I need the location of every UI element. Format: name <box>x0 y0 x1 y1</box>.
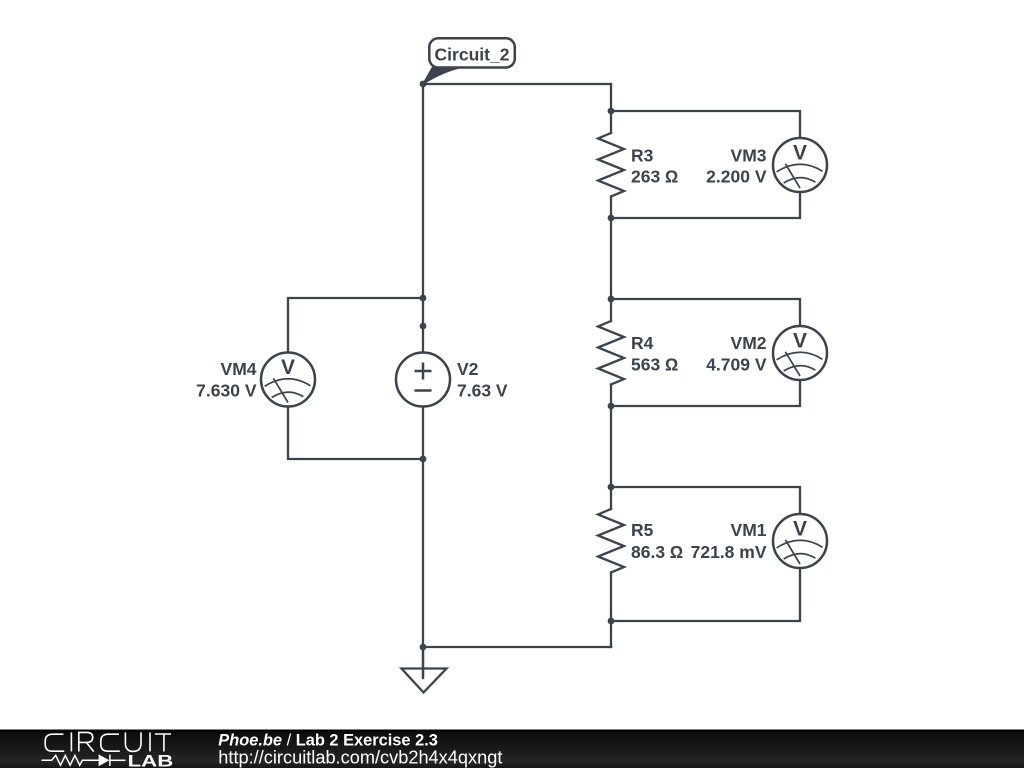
wire VM2 bottom rail <box>611 381 800 407</box>
svg-text:VM3: VM3 <box>731 145 767 165</box>
svg-text:Circuit_2: Circuit_2 <box>435 44 510 64</box>
letter R <box>79 732 94 751</box>
wire chain vertical segment 4 <box>610 573 612 648</box>
ground <box>402 647 447 693</box>
voltmeter VM2 <box>773 326 827 380</box>
label R5 <box>631 520 683 562</box>
svg-text:563 Ω: 563 Ω <box>631 354 679 374</box>
svg-text:V2: V2 <box>457 359 479 379</box>
letter U <box>125 732 141 751</box>
svg-text:721.8 mV: 721.8 mV <box>691 542 767 562</box>
svg-text:V: V <box>793 329 807 352</box>
junction VM4 top <box>420 295 427 302</box>
label VM4 <box>196 359 257 401</box>
wire top horizontal from node to chain <box>423 83 611 85</box>
wire main left vertical upper <box>422 84 424 353</box>
label V2 <box>457 359 508 401</box>
wire VM1 bottom rail <box>611 569 800 622</box>
svg-text:2.200 V: 2.200 V <box>706 166 767 186</box>
wire chain vertical segment 1 <box>610 84 612 133</box>
svg-text:VM4: VM4 <box>221 359 257 379</box>
junction chain-VM3 top <box>608 108 615 115</box>
label VM2 <box>706 333 767 375</box>
letter T <box>155 734 171 752</box>
node label callout Circuit_2 <box>423 38 515 84</box>
wire VM3 bottom rail <box>611 193 800 219</box>
wire VM3 top rail <box>611 111 800 138</box>
wire chain vertical segment 2 <box>610 197 612 322</box>
footer bar <box>0 730 1024 768</box>
svg-text:http://circuitlab.com/cvb2h4x4: http://circuitlab.com/cvb2h4x4qxngt <box>218 748 502 768</box>
letter C <box>45 734 64 751</box>
letter C <box>101 734 120 751</box>
wire chain vertical segment 3 <box>610 385 612 510</box>
svg-text:V: V <box>281 356 295 379</box>
label R3 <box>631 145 679 186</box>
resistor R5 body <box>598 509 624 573</box>
junction chain-VM1 top <box>608 484 615 491</box>
label VM1 <box>691 520 767 562</box>
junction bottom ground <box>420 644 427 651</box>
wire bottom horizontal <box>423 646 611 648</box>
label VM3 <box>706 145 767 186</box>
svg-text:V: V <box>793 517 807 540</box>
wire VM4 bottom rail <box>288 407 423 460</box>
resistor R3 body <box>598 133 624 197</box>
voltage source V2 <box>396 353 450 407</box>
wire VM4 top rail <box>288 298 423 353</box>
voltmeter VM4 <box>261 353 315 407</box>
junction chain-VM3 bottom <box>608 215 615 222</box>
voltmeter VM3 <box>773 138 827 192</box>
letter I <box>149 732 151 751</box>
wire main left vertical lower <box>422 407 424 679</box>
junction chain-VM1 bottom <box>608 618 615 625</box>
svg-text:86.3 Ω: 86.3 Ω <box>631 542 683 562</box>
wire VM2 top rail <box>611 299 800 326</box>
svg-text:VM2: VM2 <box>731 333 767 353</box>
label R4 <box>631 333 679 375</box>
junction chain-VM2 top <box>608 296 615 303</box>
svg-text:R4: R4 <box>631 333 654 353</box>
svg-text:VM1: VM1 <box>731 520 767 540</box>
svg-text:R5: R5 <box>631 520 654 540</box>
svg-text:7.63 V: 7.63 V <box>457 381 508 401</box>
wire VM1 top rail <box>611 487 800 514</box>
footer title text <box>218 731 502 767</box>
node Circuit_2 top-left <box>420 81 427 88</box>
svg-text:7.630 V: 7.630 V <box>196 381 257 401</box>
junction chain-VM2 bottom <box>608 403 615 410</box>
svg-text:263 Ω: 263 Ω <box>631 166 679 186</box>
logo resistor-diode glyph <box>42 755 126 766</box>
svg-text:LAB: LAB <box>128 751 174 768</box>
junction dots <box>420 81 615 651</box>
svg-text:4.709 V: 4.709 V <box>706 354 767 374</box>
logo CIRCUIT LAB <box>45 732 171 751</box>
svg-text:Phoe.be / Lab 2 Exercise 2.3: Phoe.be / Lab 2 Exercise 2.3 <box>218 731 438 749</box>
svg-text:R3: R3 <box>631 145 654 165</box>
letter I <box>70 732 72 751</box>
voltmeter VM1 <box>773 514 827 568</box>
resistor R4 body <box>598 321 624 385</box>
junction VM4 bottom <box>420 456 427 463</box>
junction V2 top terminal <box>420 323 427 330</box>
svg-text:V: V <box>793 141 807 164</box>
